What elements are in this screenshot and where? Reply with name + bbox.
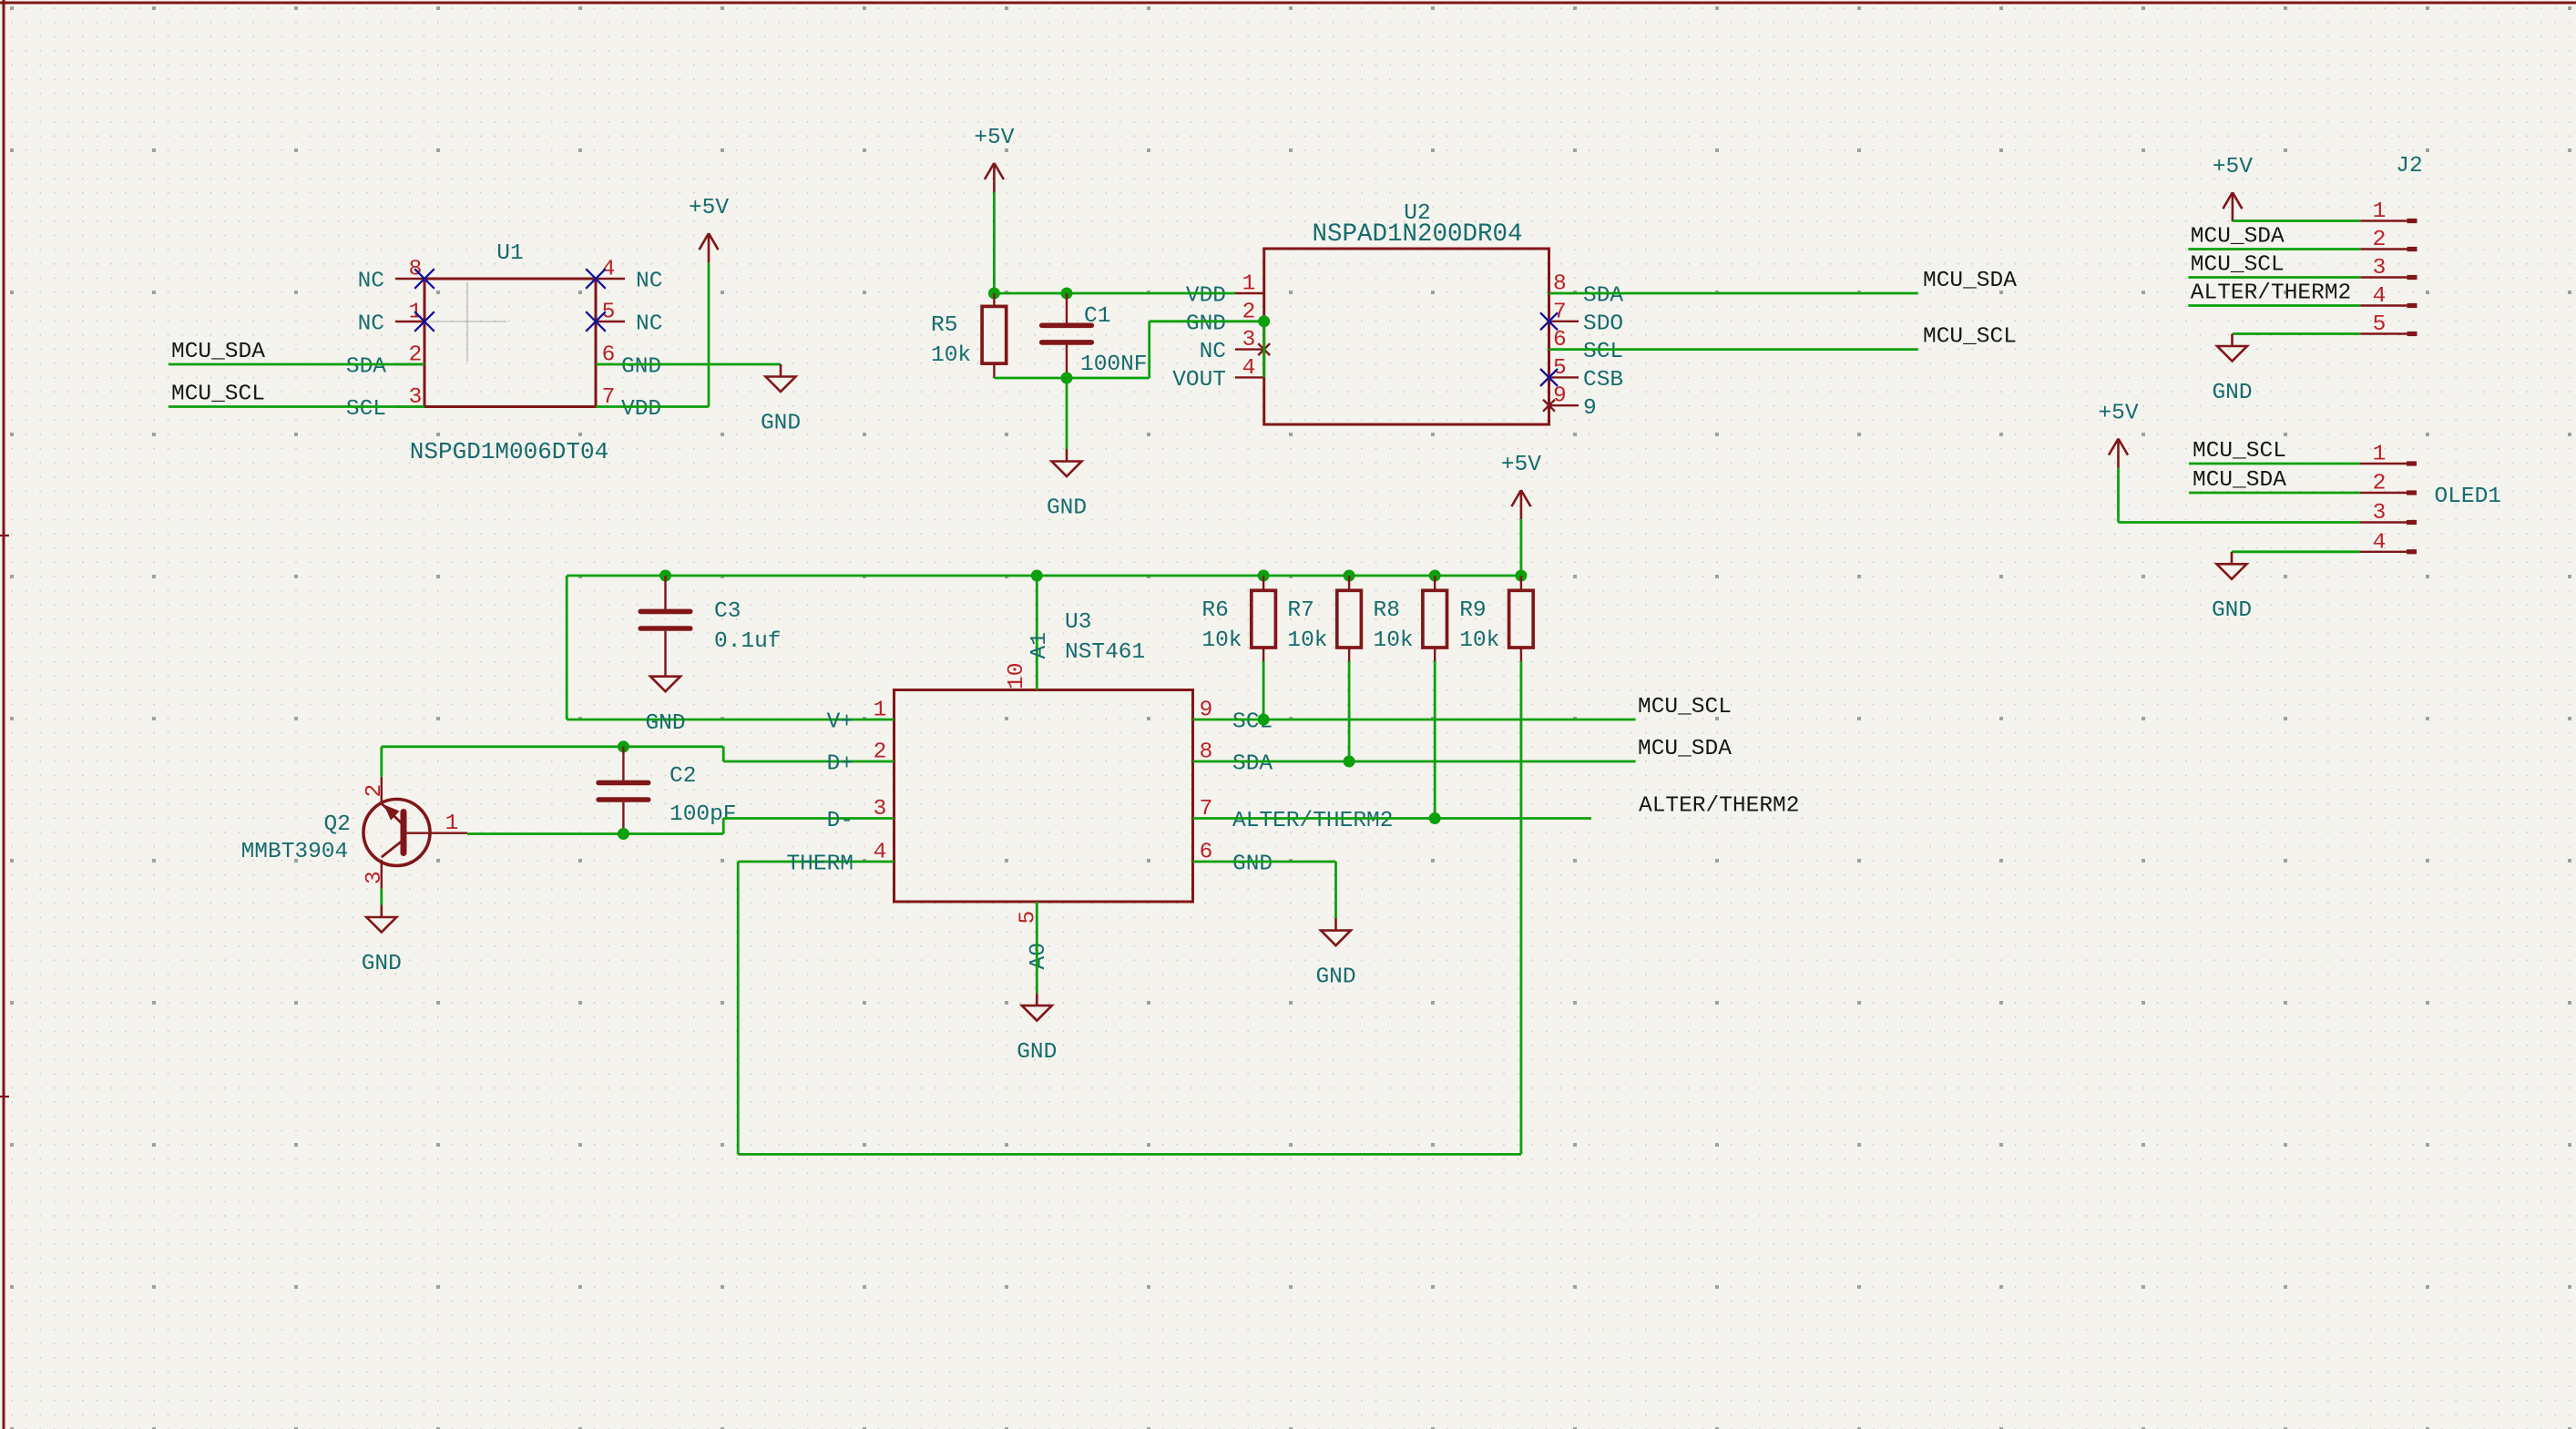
wire J2 pin 5 to ground <box>2233 332 2360 335</box>
svg-text:V+: V+ <box>827 710 854 735</box>
U1 pin 6 (GND) <box>602 343 661 380</box>
svg-text:NC: NC <box>358 270 384 294</box>
C2 value 100pF <box>670 802 737 827</box>
no-connect X at U2 pin 9 <box>1543 400 1555 412</box>
wire R6 to SCL row <box>1262 661 1265 720</box>
Q2 pin 2 (top) <box>363 777 387 805</box>
svg-text:MCU_SCL: MCU_SCL <box>2191 253 2285 278</box>
svg-text:NSPAD1N200DR04: NSPAD1N200DR04 <box>1312 220 1522 249</box>
wire rail to U3 pin 10 <box>1036 576 1038 690</box>
junction at U3 pin 10 riser <box>1031 570 1043 582</box>
wire U3 pin 9 to MCU_SCL <box>1193 719 1636 721</box>
wire U2 pin 6 SCL to MCU_SCL <box>1549 348 1918 351</box>
svg-text:4: 4 <box>874 841 887 865</box>
svg-text:2: 2 <box>2373 472 2387 496</box>
net label MCU_SDA (J2) <box>2191 225 2285 250</box>
junction at R8 top <box>1429 570 1441 582</box>
svg-text:GND: GND <box>1017 1040 1057 1065</box>
svg-text:4: 4 <box>2373 530 2387 555</box>
svg-text:2: 2 <box>2373 228 2387 252</box>
U1 reference designator <box>496 241 523 266</box>
U3 pin 3 (D-) <box>827 797 887 833</box>
svg-text:100pF: 100pF <box>670 802 737 827</box>
net label ALTER/THERM2 <box>1639 794 1799 819</box>
U2 pin 4 (VOUT) <box>1172 356 1264 393</box>
wire riser up to U2 GND row <box>1148 322 1150 378</box>
power symbol +5V at R9 <box>1511 490 1530 519</box>
svg-text:C3: C3 <box>714 599 741 624</box>
junction at C3 top <box>659 570 671 582</box>
power symbol +5V at OLED1 <box>2109 439 2128 468</box>
net label MCU_SDA (U2) <box>1923 269 2017 293</box>
ground symbol at Q2 <box>366 905 396 933</box>
ground text at J2 <box>2212 381 2252 405</box>
wire Q2 pin2 up to C2 row <box>380 747 383 777</box>
R7 reference <box>1287 598 1314 623</box>
svg-text:GND: GND <box>2212 381 2252 405</box>
wire ALTER/THERM2 to J2 pin 4 <box>2188 304 2360 307</box>
wire Q2 pin3 to ground <box>380 889 383 905</box>
U2 pin 8 (SDA) <box>1553 272 1623 309</box>
U3 pin 8 (SDA) <box>1200 740 1273 777</box>
svg-text:2: 2 <box>874 740 887 765</box>
C3 reference <box>714 599 741 624</box>
U2 value NSPAD1N200DR04 <box>1312 220 1522 249</box>
power text +5V at OLED1 <box>2098 402 2138 426</box>
svg-text:NC: NC <box>636 270 662 294</box>
wire R8 to ALTER row <box>1434 661 1436 819</box>
wire C2 top to Q2 collector corner <box>382 745 624 748</box>
resistor R8 <box>1423 576 1447 661</box>
net label MCU_SDA (U3) <box>1638 737 1732 761</box>
svg-text:GND: GND <box>1232 852 1273 877</box>
junction R6/SCL <box>1258 714 1270 726</box>
junction at R9 top <box>1515 570 1527 582</box>
svg-text:GND: GND <box>621 355 661 380</box>
svg-text:1: 1 <box>874 699 887 723</box>
svg-text:+5V: +5V <box>2213 155 2253 179</box>
junction at U2 pin 2 <box>1258 315 1270 327</box>
wire U3 pin 7 ALTER/THERM2 <box>1193 817 1592 820</box>
net label ALTER/THERM2 (J2) <box>2191 281 2351 306</box>
svg-text:MCU_SCL: MCU_SCL <box>1923 325 2017 350</box>
ground text at Q2 <box>362 952 402 976</box>
svg-text:10k: 10k <box>931 343 971 368</box>
resistor R5 <box>982 293 1007 378</box>
svg-text:ALTER/THERM2: ALTER/THERM2 <box>1639 794 1799 819</box>
ground text at U1 <box>761 411 801 435</box>
J2 pin 4 <box>2360 284 2417 309</box>
OLED1 pin 1 <box>2360 443 2417 467</box>
junction at R6 top <box>1258 570 1270 582</box>
svg-text:3: 3 <box>2373 501 2387 526</box>
R8 reference <box>1374 598 1400 623</box>
wire R5 bottom to C1 bottom <box>994 377 1067 380</box>
capacitor C2 <box>598 747 649 834</box>
U1 pin 5 (NC) <box>596 301 662 337</box>
IC U1 body (NSPGD1M006DT04) <box>424 279 596 407</box>
svg-text:MCU_SDA: MCU_SDA <box>2193 468 2286 493</box>
svg-text:7: 7 <box>1553 300 1567 324</box>
J2 pin 5 <box>2360 312 2417 337</box>
power text +5V at U1 <box>689 196 729 220</box>
IC U3 body (NST461) <box>894 690 1193 903</box>
svg-text:THERM: THERM <box>786 852 854 877</box>
svg-text:NC: NC <box>358 312 384 337</box>
junction at R5 top <box>988 288 1000 300</box>
U2 pin 6 (SCL) <box>1553 328 1623 364</box>
power text +5V at R5 <box>974 126 1014 150</box>
svg-text:SDA: SDA <box>1583 284 1623 309</box>
ground symbol below C3 <box>650 677 680 692</box>
C1 value 100NF <box>1080 352 1148 377</box>
U3 pin 1 (V+) <box>827 699 887 735</box>
capacitor C1 <box>1042 293 1092 378</box>
U1 pin 3 (SCL) <box>346 385 424 422</box>
svg-text:D-: D- <box>827 809 854 833</box>
wire MCU_SDA to J2 pin 2 <box>2188 248 2360 250</box>
net label MCU_SCL (U1) <box>171 383 265 407</box>
U2 pin 9 (9) <box>1549 384 1597 421</box>
U1 pin 1 (NC) <box>358 301 424 337</box>
svg-text:VDD: VDD <box>621 397 661 422</box>
svg-text:3: 3 <box>363 871 387 884</box>
svg-text:D+: D+ <box>827 752 854 777</box>
svg-text:R5: R5 <box>931 313 957 338</box>
svg-text:NC: NC <box>1200 340 1226 364</box>
ground symbol at J2 <box>2217 334 2247 362</box>
wire C1 bottom to GND riser <box>1067 377 1150 380</box>
svg-text:SDO: SDO <box>1583 311 1623 336</box>
U2 pin 5 (CSB) <box>1549 356 1624 393</box>
ground symbol below C1 <box>1052 449 1082 476</box>
svg-text:GND: GND <box>1186 311 1226 336</box>
ground text at U3 pin 6 <box>1315 965 1355 990</box>
svg-text:R6: R6 <box>1201 598 1228 623</box>
svg-text:10: 10 <box>1005 663 1029 689</box>
no-connect X at U1 pin 8 <box>414 269 434 289</box>
svg-text:SDA: SDA <box>346 355 386 380</box>
wire MCU_SCL to J2 pin 3 <box>2188 276 2360 279</box>
svg-text:VOUT: VOUT <box>1172 368 1226 393</box>
svg-text:U3: U3 <box>1065 610 1091 635</box>
R5 value 10k <box>931 343 971 368</box>
svg-text:4: 4 <box>1242 356 1256 381</box>
resistor R9 <box>1509 576 1534 661</box>
power text +5V at J2 <box>2213 155 2253 179</box>
C2 reference <box>670 764 696 789</box>
svg-text:1: 1 <box>2373 199 2387 224</box>
svg-text:C2: C2 <box>670 764 696 789</box>
wire C2 top to D+ jog <box>623 747 894 761</box>
Q2 pin 3 (bottom) <box>363 860 387 889</box>
power symbol +5V at R5 <box>985 163 1004 192</box>
svg-text:10k: 10k <box>1287 628 1327 653</box>
svg-text:SCL: SCL <box>346 397 386 422</box>
svg-text:4: 4 <box>2373 284 2387 309</box>
svg-text:NC: NC <box>636 312 662 337</box>
U3 pin 6 (GND) <box>1200 841 1273 877</box>
svg-text:NST461: NST461 <box>1065 640 1145 665</box>
no-connect X at U1 pin 1 <box>414 311 434 332</box>
svg-text:GND: GND <box>1047 495 1087 520</box>
power symbol +5V at J2 <box>2223 192 2242 221</box>
svg-text:MCU_SDA: MCU_SDA <box>2191 225 2285 250</box>
ground symbol at U3 pin 6 <box>1321 918 1351 945</box>
wire rail down to V+ row <box>567 576 894 720</box>
svg-text:1: 1 <box>1242 272 1256 297</box>
no-connect X at U1 pin 4 <box>586 269 606 289</box>
svg-text:MCU_SDA: MCU_SDA <box>1923 269 2017 293</box>
svg-text:9: 9 <box>1583 396 1597 421</box>
R7 value 10k <box>1287 628 1327 653</box>
wire MCU_SCL to OLED1 pin 1 <box>2189 463 2360 465</box>
Q2 value MMBT3904 <box>241 840 349 864</box>
svg-text:10k: 10k <box>1459 628 1499 653</box>
U2 pin 1 (VDD) <box>1186 272 1264 309</box>
wire MCU_SDA to U1 pin 2 <box>169 363 424 366</box>
OLED1 pin 4 <box>2360 530 2417 555</box>
U3 pin 10 (A1) <box>1005 632 1052 689</box>
svg-text:ALTER/THERM2: ALTER/THERM2 <box>1232 809 1393 833</box>
net label MCU_SDA (U1) <box>171 340 265 364</box>
U3 reference designator <box>1065 610 1091 635</box>
R9 value 10k <box>1459 628 1499 653</box>
svg-text:3: 3 <box>1242 328 1256 352</box>
U1 pin 4 (NC) <box>596 258 662 294</box>
svg-text:GND: GND <box>1315 965 1355 990</box>
ground symbol at U3 pin 5 <box>1022 994 1052 1021</box>
Q2 pin 1 (base) <box>404 811 467 836</box>
U3 pin 5 (A0) <box>1017 911 1052 970</box>
wire R7 to SDA row <box>1348 661 1351 761</box>
svg-text:GND: GND <box>2212 598 2252 623</box>
svg-text:C1: C1 <box>1084 304 1110 329</box>
svg-text:2: 2 <box>363 784 387 798</box>
svg-text:R7: R7 <box>1287 598 1314 623</box>
U2 reference designator <box>1404 201 1430 226</box>
svg-text:J2: J2 <box>2396 154 2422 179</box>
OLED1 pin 2 <box>2360 472 2417 496</box>
wire THERM net <box>738 661 1521 1154</box>
ground text below C1 <box>1047 495 1087 520</box>
svg-text:MMBT3904: MMBT3904 <box>241 840 349 864</box>
wire U3 pin 6 GND down <box>1193 862 1336 918</box>
svg-text:ALTER/THERM2: ALTER/THERM2 <box>2191 281 2351 306</box>
junction at C2 top <box>618 740 629 752</box>
IC U2 body (NSPAD1N200DR04) <box>1264 249 1549 424</box>
J2 pin 2 <box>2360 228 2417 252</box>
no-connect X at U2 pin 3 <box>1258 343 1270 355</box>
junction at R7 top <box>1344 570 1355 582</box>
net label MCU_SDA (OLED1) <box>2193 468 2286 493</box>
connector J2 reference <box>2396 154 2422 179</box>
U1 pin 2 (SDA) <box>346 343 424 380</box>
wire Q2 base to C2 bottom <box>467 832 624 835</box>
wire +5V rail <box>567 575 1521 577</box>
svg-text:3: 3 <box>2373 256 2387 281</box>
wire U2 pin2 to pin4 along edge <box>1262 322 1265 378</box>
no-connect X at U1 pin 5 <box>586 311 606 332</box>
svg-text:MCU_SCL: MCU_SCL <box>171 383 265 407</box>
svg-text:MCU_SDA: MCU_SDA <box>171 340 265 364</box>
wire +5V to J2 pin 1 <box>2233 219 2360 222</box>
ground text below C3 <box>645 711 685 736</box>
svg-text:VDD: VDD <box>1186 284 1226 309</box>
wire MCU_SDA to OLED1 pin 2 <box>2189 492 2360 495</box>
wire U1 pin 7 VDD to +5V <box>596 262 709 406</box>
junction at C2 bottom <box>618 828 629 840</box>
U3 pin 7 (ALTER/THERM2) <box>1200 797 1394 833</box>
power text +5V at R9 <box>1501 453 1541 477</box>
svg-text:GND: GND <box>362 952 402 976</box>
ground symbol at OLED1 <box>2217 552 2247 579</box>
U2 pin 3 (NC) <box>1200 328 1264 364</box>
wire U1 pin 6 GND to ground <box>596 364 781 365</box>
wire to U2 pin 2 <box>1150 320 1264 322</box>
junction R8/ALTER <box>1429 812 1441 824</box>
svg-text:5: 5 <box>1553 356 1567 381</box>
svg-text:U1: U1 <box>496 241 523 266</box>
wire C2 bottom to D- jog <box>623 819 894 834</box>
svg-text:3: 3 <box>874 797 887 822</box>
junction R7/SDA <box>1344 756 1355 768</box>
no-connect X at U2 pin 7 <box>1540 312 1558 330</box>
R9 reference <box>1459 598 1486 623</box>
net label MCU_SCL (U3) <box>1638 695 1732 720</box>
ground symbol at U1 <box>766 364 796 392</box>
Q2 reference designator <box>324 812 351 837</box>
R6 value 10k <box>1201 628 1242 653</box>
svg-text:9: 9 <box>1553 384 1567 409</box>
svg-text:GND: GND <box>761 411 801 435</box>
OLED1 pin 3 <box>2360 501 2417 526</box>
junction at C1 top <box>1061 288 1073 300</box>
U3 pin 4 (THERM) <box>786 841 886 877</box>
wire +5V to OLED1 pin 3 <box>2119 468 2361 523</box>
svg-text:+5V: +5V <box>2098 402 2138 426</box>
U1 value NSPGD1M006DT04 <box>410 438 608 465</box>
J2 pin 3 <box>2360 256 2417 281</box>
capacitor C3 <box>640 576 690 677</box>
svg-text:A1: A1 <box>1027 632 1052 658</box>
svg-text:GND: GND <box>645 711 685 736</box>
svg-text:CSB: CSB <box>1583 368 1623 393</box>
wire +5V to R9 top <box>1520 519 1523 576</box>
svg-text:Q2: Q2 <box>324 812 351 837</box>
svg-text:SCL: SCL <box>1583 340 1623 364</box>
svg-text:MCU_SDA: MCU_SDA <box>1638 737 1732 761</box>
power symbol +5V at U1 <box>700 233 719 262</box>
J2 pin 1 <box>2360 199 2417 224</box>
C1 reference <box>1084 304 1110 329</box>
R6 reference <box>1201 598 1228 623</box>
U1 pin 7 (VDD) <box>602 385 661 422</box>
net label MCU_SCL (OLED1) <box>2193 439 2286 464</box>
wire VDD rail to U2 pin 1 <box>994 292 1235 295</box>
svg-text:MCU_SCL: MCU_SCL <box>2193 439 2286 464</box>
no-connect X at U2 pin 5 <box>1540 369 1558 386</box>
wire U2 pin 8 SDA to MCU_SDA <box>1549 292 1918 295</box>
ground text at U3 pin 5 <box>1017 1040 1057 1065</box>
wire OLED1 pin 4 to ground <box>2232 550 2360 553</box>
resistor R7 <box>1337 576 1362 661</box>
svg-text:100NF: 100NF <box>1080 352 1148 377</box>
svg-text:0.1uf: 0.1uf <box>714 629 782 654</box>
wire +5V to VDD rail <box>993 192 996 293</box>
svg-text:1: 1 <box>2373 443 2387 467</box>
wire U3 pin 8 to MCU_SDA <box>1193 760 1636 763</box>
U2 pin 7 (SDO) <box>1549 300 1624 336</box>
svg-text:A0: A0 <box>1027 943 1051 969</box>
U2 pin 2 (GND) <box>1186 300 1264 336</box>
ground text at OLED1 <box>2212 598 2252 623</box>
svg-text:+5V: +5V <box>1501 453 1541 477</box>
svg-text:NSPGD1M006DT04: NSPGD1M006DT04 <box>410 438 608 465</box>
U3 pin 9 (SCL) <box>1200 699 1273 735</box>
transistor Q2 MMBT3904 body <box>363 800 430 866</box>
svg-text:1: 1 <box>445 811 459 836</box>
svg-text:OLED1: OLED1 <box>2435 485 2502 509</box>
svg-text:R9: R9 <box>1459 598 1486 623</box>
wire U3 pin 5 to ground <box>1036 902 1038 994</box>
U3 value NST461 <box>1065 640 1145 665</box>
wire C1 to ground <box>1066 378 1068 449</box>
svg-text:SDA: SDA <box>1232 752 1273 777</box>
svg-text:10k: 10k <box>1201 628 1242 653</box>
U1 pin 8 (NC) <box>358 258 424 294</box>
svg-text:10k: 10k <box>1374 628 1414 653</box>
svg-text:+5V: +5V <box>689 196 729 220</box>
svg-text:+5V: +5V <box>974 126 1014 150</box>
svg-text:5: 5 <box>2373 312 2387 337</box>
svg-text:MCU_SCL: MCU_SCL <box>1638 695 1732 720</box>
net label MCU_SCL (J2) <box>2191 253 2285 278</box>
connector OLED1 reference <box>2435 485 2502 509</box>
U1 anchor crosshair <box>428 282 506 362</box>
R8 value 10k <box>1374 628 1414 653</box>
net label MCU_SCL (U2) <box>1923 325 2017 350</box>
U3 pin 2 (D+) <box>827 740 887 777</box>
R5 reference <box>931 313 957 338</box>
wire MCU_SCL to U1 pin 3 <box>169 405 424 408</box>
C3 value 0.1uf <box>714 629 782 654</box>
svg-text:R8: R8 <box>1374 598 1400 623</box>
junction at C1 bottom <box>1061 373 1073 384</box>
resistor R6 <box>1252 576 1276 661</box>
